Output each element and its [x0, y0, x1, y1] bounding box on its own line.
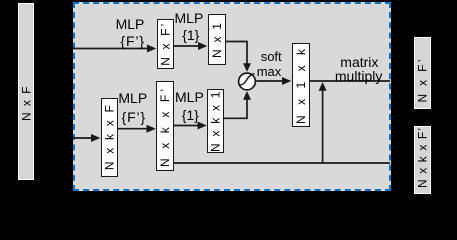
- svg-text:N x F’: N x F’: [416, 60, 430, 103]
- svg-text:N x 1 x k: N x 1 x k: [294, 48, 308, 124]
- svg-text:N x F: N x F: [19, 87, 33, 122]
- svg-text:N x k x F: N x k x F: [103, 105, 117, 170]
- svg-text:N x k x F’: N x k x F’: [416, 128, 430, 188]
- svg-text:N x 1: N x 1: [210, 23, 224, 58]
- svg-text:N x k x 1: N x k x 1: [209, 91, 223, 152]
- svg-text:N x k x F’: N x k x F’: [158, 89, 172, 167]
- svg-text:N x F’: N x F’: [159, 24, 173, 66]
